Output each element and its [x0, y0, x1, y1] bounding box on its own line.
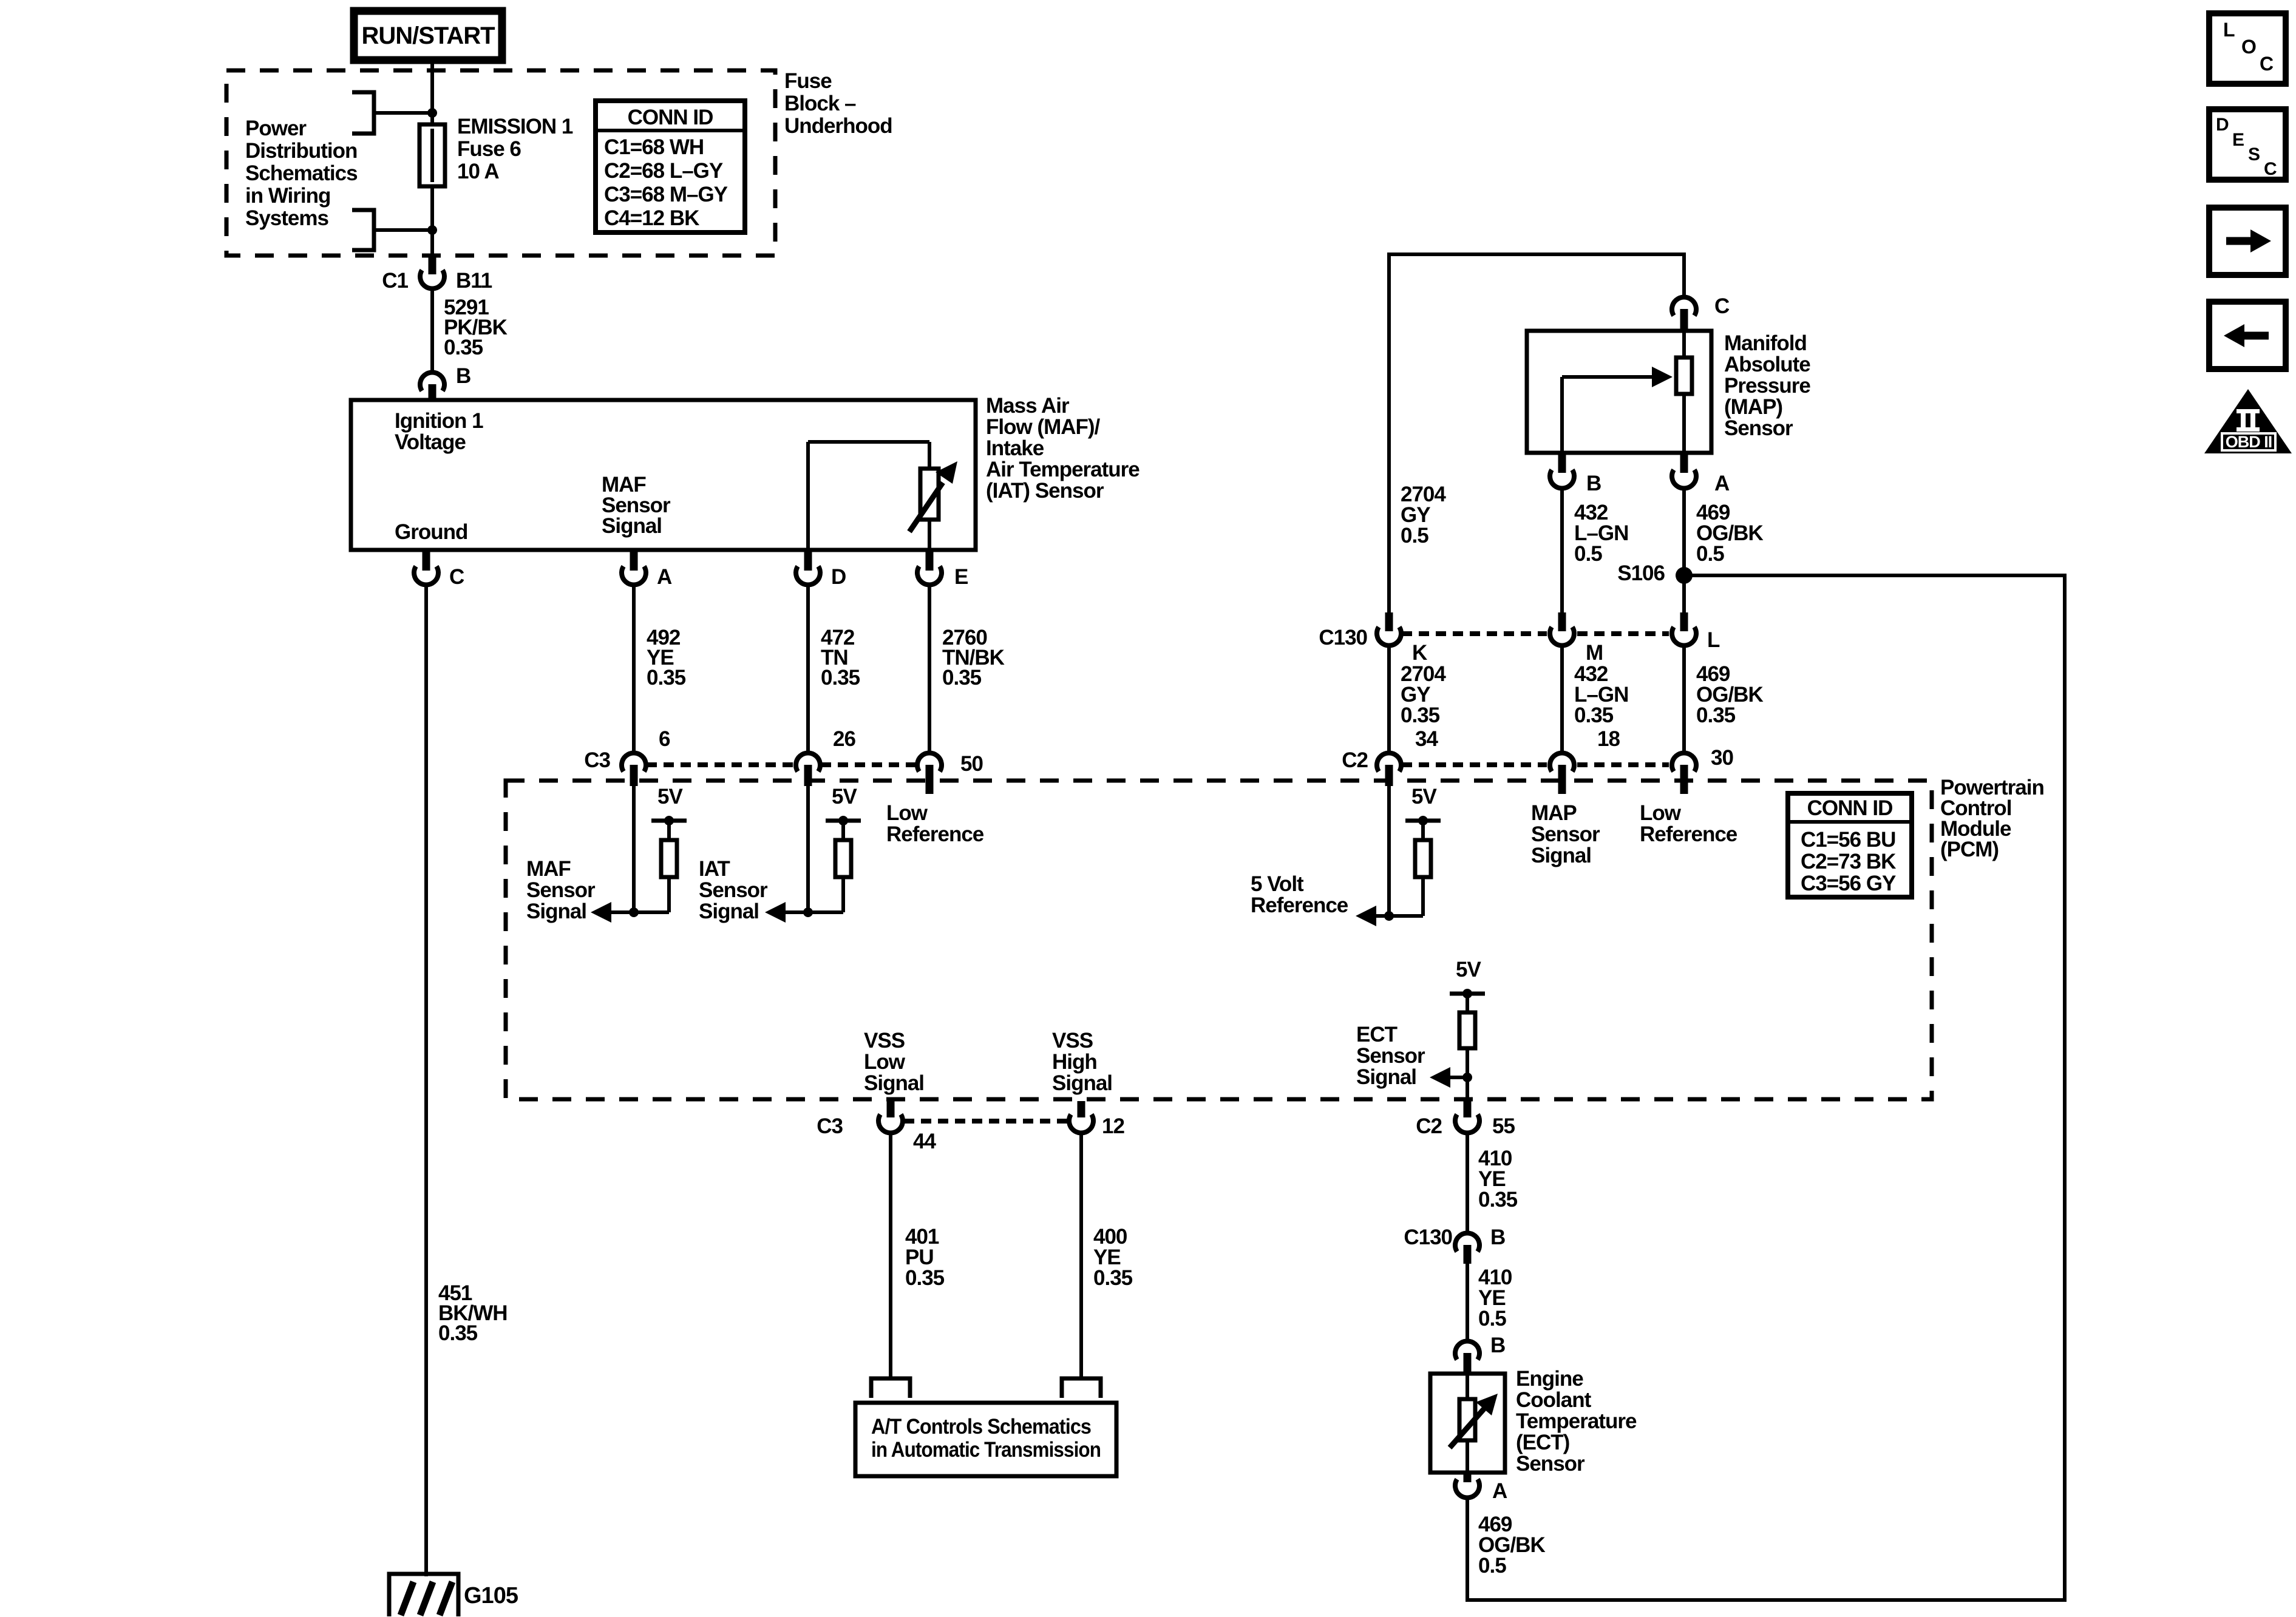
- offpage connector 401: [871, 1378, 910, 1398]
- svg-text:C1: C1: [382, 269, 408, 293]
- svg-text:VSS: VSS: [864, 1029, 905, 1053]
- svg-text:C4=12 BK: C4=12 BK: [604, 206, 699, 230]
- wire 400 YE: [1079, 1134, 1083, 1378]
- wire resistor IAT down: [841, 877, 845, 912]
- connector line 44-12: [904, 1119, 1067, 1124]
- connector C130 pin B: [1404, 1225, 1505, 1264]
- svg-text:Schematics: Schematics: [245, 161, 358, 185]
- connector pin E sensor box: [917, 550, 968, 589]
- rail 5V ref: [1405, 816, 1441, 840]
- wire 401 PU: [889, 1134, 892, 1378]
- label C3 connector: [584, 748, 610, 772]
- label 432 L-GN 0.5: [1574, 501, 1628, 566]
- svg-text:0.35: 0.35: [942, 666, 982, 690]
- svg-text:0.35: 0.35: [438, 1321, 478, 1345]
- svg-text:0.5: 0.5: [1478, 1554, 1506, 1578]
- connector pin C3-44 VSS low: [817, 1101, 936, 1153]
- arrow MAP wiper: [1562, 367, 1673, 453]
- svg-text:E: E: [2232, 130, 2244, 150]
- svg-text:44: 44: [913, 1130, 936, 1153]
- label C2 connector: [1342, 748, 1368, 772]
- svg-text:Signal: Signal: [1531, 844, 1591, 867]
- svg-text:C130: C130: [1404, 1225, 1452, 1249]
- wire resistor MAF down: [667, 877, 671, 912]
- connector line C2: [1402, 762, 1669, 767]
- svg-text:Sensor: Sensor: [1516, 1452, 1585, 1476]
- svg-text:Sensor: Sensor: [1356, 1044, 1425, 1068]
- connector line C3: [647, 762, 917, 767]
- svg-text:Flow (MAF)/: Flow (MAF)/: [986, 415, 1101, 439]
- connector pin L: [1672, 612, 1720, 652]
- node S106 splice: [1617, 561, 1693, 585]
- svg-text:G105: G105: [464, 1583, 518, 1609]
- svg-text:Signal: Signal: [602, 514, 662, 538]
- svg-text:Temperature: Temperature: [1516, 1409, 1637, 1433]
- svg-text:C2=68 L–GY: C2=68 L–GY: [604, 159, 723, 183]
- power feed box RUN/START: [354, 11, 502, 60]
- svg-text:D: D: [2216, 115, 2229, 135]
- connector line C130: [1402, 631, 1669, 636]
- label C130 connector: [1319, 626, 1367, 649]
- svg-text:34: 34: [1415, 727, 1438, 751]
- svg-text:Signal: Signal: [526, 900, 586, 923]
- component box MAP sensor: [1527, 331, 1711, 453]
- connector pin 50: [917, 752, 983, 794]
- svg-text:(PCM): (PCM): [1940, 838, 1999, 861]
- svg-text:0.35: 0.35: [1401, 703, 1440, 727]
- svg-text:18: 18: [1597, 727, 1620, 751]
- icon LOC box: [2209, 13, 2286, 84]
- svg-text:0.5: 0.5: [1696, 542, 1724, 566]
- connector C2 pin 55: [1416, 1101, 1515, 1138]
- svg-text:C: C: [449, 565, 464, 589]
- connector pin 26: [796, 727, 855, 786]
- connector pin D sensor box: [796, 550, 846, 589]
- label G105: [464, 1583, 518, 1609]
- svg-text:Ignition 1: Ignition 1: [395, 409, 483, 433]
- svg-text:A/T Controls Schematics: A/T Controls Schematics: [871, 1415, 1091, 1439]
- wire IAT loop: [808, 442, 929, 550]
- svg-text:C3: C3: [584, 748, 610, 772]
- svg-text:Reference: Reference: [1640, 822, 1737, 846]
- label 401 PU 0.35: [905, 1225, 945, 1290]
- label Power Distribution Schematics: [245, 117, 358, 230]
- fuse F6 EMISSION 1: [419, 113, 445, 230]
- svg-text:MAF: MAF: [526, 857, 571, 881]
- label 5 Volt Reference: [1251, 872, 1348, 917]
- wire 472 TN: [806, 586, 810, 753]
- svg-text:S: S: [2248, 144, 2260, 164]
- rail 5V ECT: [1450, 989, 1485, 1012]
- svg-text:L: L: [2223, 19, 2235, 41]
- svg-text:Distribution: Distribution: [245, 139, 357, 163]
- node junction lower: [427, 225, 437, 235]
- label VSS High Signal: [1052, 1029, 1112, 1095]
- svg-text:Coolant: Coolant: [1516, 1388, 1592, 1412]
- svg-text:Sensor: Sensor: [699, 878, 768, 902]
- wire 492 YE: [632, 586, 636, 753]
- svg-text:10 A: 10 A: [457, 160, 499, 183]
- svg-text:30: 30: [1711, 746, 1733, 770]
- connector B ignition: [420, 364, 470, 401]
- label 400 YE 0.35: [1093, 1225, 1133, 1290]
- svg-text:5V: 5V: [1456, 958, 1481, 981]
- connector pin B MAP: [1550, 453, 1601, 495]
- wire 469 L to 30: [1682, 646, 1686, 753]
- svg-text:Fuse: Fuse: [784, 69, 832, 93]
- connector pin A ECT: [1455, 1473, 1507, 1503]
- connector pin 12 VSS high: [1069, 1101, 1124, 1138]
- svg-text:C3: C3: [817, 1114, 843, 1138]
- wire MAF signal inside PCM: [632, 786, 636, 912]
- svg-text:Manifold: Manifold: [1724, 331, 1807, 355]
- svg-text:(MAP): (MAP): [1724, 395, 1782, 419]
- wire fuse to C1: [430, 230, 434, 256]
- thermistor ECT: [1450, 1374, 1498, 1473]
- label 469 OG/BK 0.5: [1696, 501, 1763, 566]
- label Powertrain Control Module PCM: [1940, 776, 2044, 861]
- svg-text:0.35: 0.35: [1574, 703, 1614, 727]
- svg-text:C2: C2: [1342, 748, 1368, 772]
- label 472 TN 0.35: [821, 626, 860, 690]
- wire MAP 5V loop top: [1387, 254, 1686, 612]
- wire 410 YE 0.35: [1466, 1134, 1469, 1232]
- svg-text:Reference: Reference: [886, 822, 984, 846]
- label Low Reference right: [1640, 801, 1737, 846]
- svg-text:Low: Low: [864, 1050, 906, 1074]
- svg-text:OBD II: OBD II: [2226, 433, 2272, 451]
- wire 5V ref inside PCM: [1387, 786, 1391, 916]
- svg-text:26: 26: [833, 727, 855, 751]
- wire 2704 K to 34: [1387, 646, 1391, 753]
- svg-text:0.5: 0.5: [1574, 542, 1602, 566]
- svg-text:Absolute: Absolute: [1724, 353, 1810, 376]
- svg-text:0.5: 0.5: [1401, 524, 1428, 547]
- svg-text:C1=56 BU: C1=56 BU: [1801, 828, 1895, 852]
- wire RUN/START to fuse block: [430, 60, 434, 126]
- reference box A/T Controls: [855, 1403, 1116, 1476]
- svg-text:Block –: Block –: [784, 92, 856, 115]
- connector pin B ECT: [1455, 1334, 1505, 1375]
- connector pin K: [1377, 612, 1427, 665]
- fuse block dashed box: [226, 70, 775, 256]
- label 469 OG/BK 0.35: [1696, 662, 1763, 727]
- svg-text:RUN/START: RUN/START: [361, 22, 495, 49]
- svg-text:E: E: [954, 565, 968, 589]
- rail 5V IAT: [826, 816, 861, 840]
- label 2704 GY 0.35: [1401, 662, 1446, 727]
- svg-text:Signal: Signal: [1356, 1065, 1416, 1089]
- svg-text:5V: 5V: [1411, 785, 1437, 808]
- wire 432 B to M: [1560, 489, 1564, 612]
- label 5V ECT pullup: [1456, 958, 1481, 981]
- svg-text:in Wiring: in Wiring: [245, 184, 330, 208]
- svg-text:C: C: [2264, 159, 2277, 179]
- svg-text:in Automatic Transmission: in Automatic Transmission: [871, 1438, 1101, 1462]
- component box MAF/IAT sensor: [351, 400, 976, 550]
- wire ground 451: [424, 586, 428, 1574]
- rail 5V MAF: [651, 816, 687, 840]
- svg-text:0.35: 0.35: [1478, 1188, 1518, 1212]
- svg-text:Air Temperature: Air Temperature: [986, 458, 1140, 481]
- svg-text:VSS: VSS: [1052, 1029, 1093, 1053]
- connector pin C sensor box: [414, 550, 464, 589]
- resistor MAF pullup: [661, 840, 677, 877]
- table CONN ID PCM: [1788, 793, 1912, 897]
- svg-text:C3=56 GY: C3=56 GY: [1801, 872, 1896, 895]
- label MAF Sensor Signal pin: [602, 473, 671, 538]
- label VSS Low Signal: [864, 1029, 924, 1095]
- label EMISSION 1 Fuse 6 10 A: [457, 115, 573, 183]
- table CONN ID fuse block: [596, 101, 745, 232]
- svg-text:Mass Air: Mass Air: [986, 394, 1070, 418]
- wire 2760 TN/BK: [928, 586, 931, 753]
- svg-text:D: D: [831, 565, 846, 589]
- label Fuse Block - Underhood: [784, 69, 892, 138]
- wire 432 M to 18: [1560, 646, 1564, 753]
- svg-text:A: A: [657, 565, 672, 589]
- svg-text:Signal: Signal: [699, 900, 759, 923]
- label 492 YE 0.35: [647, 626, 686, 690]
- svg-text:ECT: ECT: [1356, 1023, 1398, 1046]
- svg-text:C: C: [1714, 294, 1730, 318]
- thermistor IAT: [909, 461, 957, 550]
- component box ECT sensor: [1430, 1374, 1505, 1473]
- svg-text:Fuse 6: Fuse 6: [457, 137, 521, 161]
- svg-text:0.35: 0.35: [905, 1266, 945, 1290]
- svg-text:B: B: [1490, 1225, 1505, 1249]
- connector pin 30: [1672, 746, 1733, 794]
- wire 5291 PK/BK: [430, 290, 434, 373]
- svg-text:MAP: MAP: [1531, 801, 1577, 825]
- wire IAT signal inside PCM: [806, 786, 810, 912]
- svg-text:Reference: Reference: [1251, 893, 1348, 917]
- wire S106 to right edge: [1467, 574, 2067, 1602]
- label 410 YE 0.5: [1478, 1266, 1512, 1331]
- wire resistor ref down: [1421, 877, 1425, 916]
- svg-text:Low: Low: [1640, 801, 1682, 825]
- svg-text:Engine: Engine: [1516, 1367, 1583, 1391]
- connector pin 34: [1377, 727, 1438, 786]
- svg-text:Intake: Intake: [986, 436, 1044, 460]
- ground G105: [389, 1574, 458, 1616]
- svg-text:12: 12: [1102, 1114, 1124, 1138]
- svg-text:O: O: [2241, 36, 2256, 58]
- wire upper stub to fuse wire: [374, 111, 432, 115]
- label 5291 PK/BK 0.35: [444, 296, 508, 359]
- label Mass Air Flow IAT Sensor: [986, 394, 1140, 503]
- arrow IAT sensor signal: [765, 902, 843, 923]
- connector pin A sensor box: [622, 550, 672, 589]
- label 410 YE 0.35: [1478, 1147, 1518, 1212]
- potentiometer MAP: [1676, 331, 1692, 453]
- svg-text:Power: Power: [245, 117, 307, 140]
- label MAP Sensor Signal PCM: [1531, 801, 1600, 867]
- svg-text:Underhood: Underhood: [784, 114, 892, 138]
- label MAF Sensor Signal PCM: [526, 857, 596, 923]
- svg-text:A: A: [1492, 1479, 1507, 1503]
- connector pin 6: [622, 727, 670, 786]
- svg-text:K: K: [1412, 641, 1427, 665]
- connector pin 18: [1550, 727, 1620, 794]
- wire resistor ECT down: [1466, 1048, 1469, 1101]
- connector C MAP: [1672, 294, 1730, 332]
- svg-text:55: 55: [1492, 1114, 1515, 1138]
- label Low Reference left: [886, 801, 984, 846]
- label 469 OG/BK 0.5 bottom: [1478, 1513, 1545, 1578]
- svg-text:S106: S106: [1617, 561, 1665, 585]
- connector pin A MAP: [1672, 453, 1730, 495]
- svg-text:Voltage: Voltage: [395, 430, 466, 454]
- icon DESC box: [2209, 109, 2286, 180]
- icon arrow right box: [2209, 208, 2286, 275]
- connector stub upper (power distribution): [352, 92, 374, 134]
- svg-text:0.35: 0.35: [1696, 703, 1736, 727]
- label 2704 GY 0.5: [1401, 483, 1446, 547]
- label Ground: [395, 520, 467, 544]
- svg-text:0.5: 0.5: [1478, 1307, 1506, 1331]
- svg-text:M: M: [1586, 641, 1603, 665]
- svg-text:0.35: 0.35: [444, 336, 483, 359]
- icon OBD II triangle: [2204, 389, 2292, 453]
- label IAT Sensor Signal PCM: [699, 857, 768, 923]
- svg-text:EMISSION 1: EMISSION 1: [457, 115, 573, 138]
- label 451 BK/WH 0.35: [438, 1281, 508, 1345]
- label 432 L-GN 0.35: [1574, 662, 1628, 727]
- label 5V IAT pullup: [832, 785, 857, 808]
- svg-text:B: B: [456, 364, 470, 388]
- svg-text:Sensor: Sensor: [1724, 416, 1793, 440]
- wire 410 YE 0.5: [1466, 1264, 1469, 1340]
- svg-text:Low: Low: [886, 801, 928, 825]
- svg-text:(ECT): (ECT): [1516, 1431, 1569, 1454]
- svg-text:B: B: [1490, 1334, 1505, 1357]
- svg-text:5V: 5V: [832, 785, 857, 808]
- svg-text:Sensor: Sensor: [526, 878, 596, 902]
- svg-text:C1=68 WH: C1=68 WH: [604, 135, 704, 159]
- wire 469 OG/BK to splice: [1466, 1499, 1469, 1602]
- svg-text:B: B: [1586, 472, 1601, 495]
- label 5V ref pullup: [1411, 785, 1437, 808]
- connector pin M: [1550, 612, 1603, 665]
- icon arrow left box: [2209, 302, 2286, 369]
- svg-text:50: 50: [960, 752, 983, 776]
- svg-text:A: A: [1714, 472, 1730, 495]
- svg-text:IAT: IAT: [699, 857, 730, 881]
- node junction upper: [427, 108, 437, 118]
- svg-text:CONN ID: CONN ID: [1807, 796, 1893, 820]
- svg-text:Signal: Signal: [1052, 1071, 1112, 1095]
- connector stub lower (power distribution): [352, 210, 374, 250]
- svg-text:B11: B11: [456, 269, 492, 293]
- svg-text:C2: C2: [1416, 1114, 1442, 1138]
- wire lower stub to fuse wire: [374, 228, 432, 232]
- arrow 5 volt reference: [1356, 906, 1423, 926]
- svg-text:0.35: 0.35: [647, 666, 686, 690]
- svg-text:5 Volt: 5 Volt: [1251, 872, 1304, 896]
- module box PCM dashed: [506, 781, 1932, 1099]
- arrow MAF sensor signal: [591, 902, 669, 923]
- label Engine Coolant Temperature ECT Sensor: [1516, 1367, 1637, 1476]
- svg-text:C2=73 BK: C2=73 BK: [1801, 850, 1896, 873]
- svg-text:Signal: Signal: [864, 1071, 924, 1095]
- svg-text:Pressure: Pressure: [1724, 374, 1810, 398]
- label ECT Sensor Signal PCM: [1356, 1023, 1425, 1089]
- svg-text:High: High: [1052, 1050, 1097, 1074]
- svg-text:C3=68 M–GY: C3=68 M–GY: [604, 183, 728, 206]
- label Manifold Absolute Pressure MAP Sensor: [1724, 331, 1810, 440]
- label 5V MAF pullup: [657, 785, 683, 808]
- svg-text:0.35: 0.35: [1093, 1266, 1133, 1290]
- resistor ECT pullup: [1459, 1012, 1475, 1048]
- svg-text:(IAT) Sensor: (IAT) Sensor: [986, 479, 1104, 503]
- wire 469 A to S106: [1682, 489, 1686, 612]
- svg-text:6: 6: [659, 727, 670, 751]
- label 2760 TN/BK 0.35: [942, 626, 1005, 690]
- svg-text:C: C: [2260, 53, 2274, 75]
- offpage connector 400: [1062, 1378, 1101, 1398]
- arrow ECT sensor signal: [1430, 1067, 1472, 1088]
- svg-text:0.35: 0.35: [821, 666, 860, 690]
- svg-text:C130: C130: [1319, 626, 1367, 649]
- svg-text:L: L: [1707, 628, 1720, 652]
- svg-text:5V: 5V: [657, 785, 683, 808]
- resistor 5V ref: [1415, 840, 1431, 877]
- label Ignition 1 Voltage: [395, 409, 483, 454]
- svg-text:Sensor: Sensor: [1531, 822, 1600, 846]
- connector C1 pin B11: [382, 256, 492, 293]
- svg-text:Ground: Ground: [395, 520, 467, 544]
- svg-text:CONN ID: CONN ID: [628, 106, 713, 129]
- resistor IAT pullup: [835, 840, 851, 877]
- svg-text:Systems: Systems: [245, 206, 329, 230]
